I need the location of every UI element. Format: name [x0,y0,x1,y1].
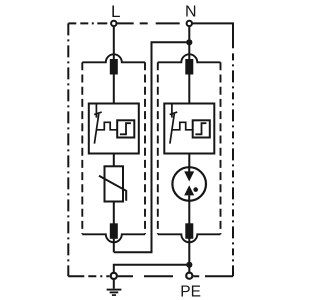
svg-text:PE: PE [180,284,201,300]
svg-text:N: N [185,3,197,20]
svg-text:L: L [111,2,120,21]
